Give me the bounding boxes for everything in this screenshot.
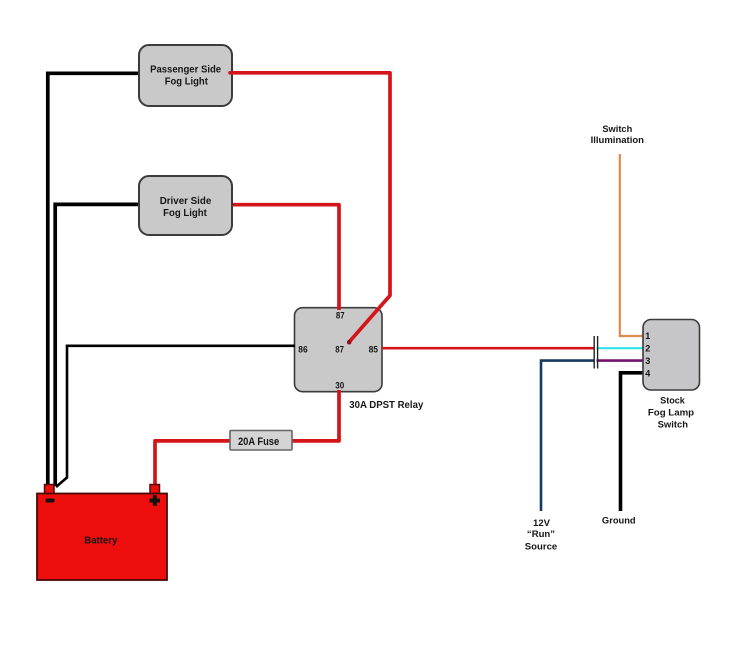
svg-text:3: 3: [645, 356, 650, 366]
svg-text:Switch: Switch: [658, 419, 688, 429]
svg-text:Fog Light: Fog Light: [165, 76, 209, 87]
svg-text:Driver Side: Driver Side: [160, 196, 212, 207]
svg-text:20A Fuse: 20A Fuse: [238, 436, 279, 448]
svg-text:4: 4: [645, 368, 650, 378]
svg-text:Battery: Battery: [84, 535, 117, 547]
svg-text:2: 2: [645, 343, 650, 353]
svg-text:30: 30: [335, 381, 344, 391]
svg-text:30A DPST Relay: 30A DPST Relay: [349, 399, 423, 411]
svg-text:Passenger Side: Passenger Side: [150, 65, 221, 76]
svg-text:Source: Source: [525, 542, 558, 552]
svg-text:“Run”: “Run”: [527, 529, 555, 539]
svg-text:Stock: Stock: [660, 396, 686, 406]
svg-text:87: 87: [335, 345, 344, 355]
svg-text:87: 87: [336, 310, 345, 320]
svg-text:Fog Light: Fog Light: [163, 208, 207, 219]
svg-text:85: 85: [369, 345, 378, 355]
svg-text:1: 1: [645, 331, 650, 341]
svg-text:86: 86: [298, 345, 307, 355]
svg-text:Ground: Ground: [602, 516, 636, 526]
svg-text:Switch: Switch: [602, 124, 632, 134]
svg-text:12V: 12V: [533, 518, 550, 528]
svg-text:Fog Lamp: Fog Lamp: [648, 407, 695, 417]
svg-text:Illumination: Illumination: [591, 135, 644, 145]
